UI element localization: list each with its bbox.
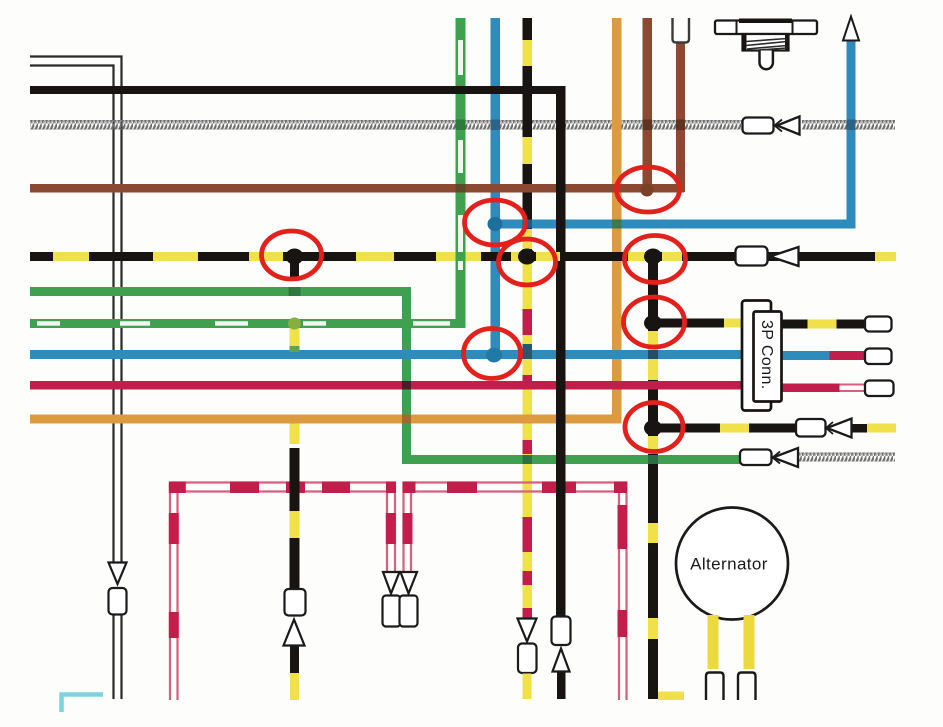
wire yellow alternator lead 2 bbox=[744, 615, 755, 669]
wire stub y428 junction to bullet connector bbox=[653, 424, 896, 433]
junction node at (653,428) bbox=[644, 420, 662, 436]
wire blue horizontal y355 (lower) bbox=[30, 350, 866, 360]
wire G/W green-white horizontal y324 bbox=[30, 319, 466, 328]
junction node at (653,323) bbox=[644, 315, 662, 331]
wire blue horizontal y224 + vertical x851 bbox=[495, 40, 856, 229]
wire gray shielded (hatched) horizontal y127 bbox=[30, 120, 895, 130]
crossing blob blue224 x orange616 bbox=[612, 220, 622, 229]
crossing blob yellow294 x blue355 bbox=[290, 346, 300, 352]
annotation circle 1 (294,255) bbox=[262, 231, 322, 279]
connector bullet rect + arrow on hatched y127 bbox=[743, 117, 800, 135]
junction node blue at (495,224) bbox=[488, 217, 503, 231]
wire R/W red-white loop U1 bbox=[169, 482, 396, 701]
connector bullet rect + arrow on y428 bbox=[796, 419, 852, 438]
terminal rect right y356 bbox=[865, 349, 892, 365]
connector rect + triangle up on wire x561 bbox=[552, 617, 571, 672]
wire yellow tail below x527 connector bbox=[523, 674, 532, 700]
annotation circle 8 (654,427) bbox=[625, 403, 683, 452]
connector triangle down + rect on white wire x117 bbox=[109, 563, 127, 615]
wire Y/R yellow-red vertical x527 upper (black/yellow) bbox=[523, 18, 533, 261]
terminal rect right y323 bbox=[865, 317, 892, 332]
annotation circle 5 (655,259) bbox=[625, 236, 686, 283]
annotation circle 6 (654,322) bbox=[624, 297, 685, 347]
connector chevron y428 bbox=[826, 422, 833, 434]
connector chevron y459 bbox=[773, 452, 781, 464]
wire brown vertical x680 from U terminal bbox=[676, 42, 685, 192]
alternator circle bbox=[676, 508, 788, 620]
wire gray shielded (hatched) right of green connector bbox=[798, 453, 895, 462]
terminal U (female) above brown x680 bbox=[673, 18, 690, 43]
wire blue vertical x495 (top to lower blue junction) bbox=[491, 18, 501, 359]
3P connector box bbox=[742, 301, 782, 411]
connector triangle down + rect on wire x527 bbox=[518, 619, 537, 674]
wire orange horizontal y419 + vertical x616 bbox=[30, 18, 622, 424]
wire black/yellow dashed horizontal y256 bbox=[30, 252, 896, 261]
wire brown horizontal y188 bbox=[30, 184, 684, 193]
connector chevron y127 bbox=[775, 120, 783, 132]
terminal male cap alternator lead 2 bbox=[738, 673, 756, 701]
connector triangle down + rect on wire x391 bbox=[383, 572, 401, 627]
crossing blob orange419 x green406 bbox=[402, 415, 411, 424]
wire Y/R yellow-red vertical x527 lower bbox=[523, 261, 533, 618]
junction node at (653,257) bbox=[644, 249, 662, 265]
crossing green460 over dashed y256 bbox=[456, 252, 466, 261]
wire y323 right of 3P conn to terminal bbox=[782, 320, 867, 329]
annotation circle 7 (648,189) bbox=[617, 167, 680, 212]
connector bullet rect + arrow on green y459 bbox=[740, 448, 798, 467]
crossing blob hatched x brown680 bbox=[676, 120, 685, 131]
junction node at (527,257) bbox=[518, 249, 536, 265]
crossing blob hatched x green460 bbox=[456, 120, 466, 131]
wire stub y323 junction to 3P conn bbox=[653, 319, 742, 328]
connector triangle down + rect on wire x408 bbox=[400, 572, 418, 627]
wire yellow alternator lead 1 bbox=[708, 615, 719, 669]
svg-text:Alternator: Alternator bbox=[690, 555, 768, 574]
crossing blob green459 x wire653 bbox=[648, 455, 658, 464]
arrow terminal blue top x851 bbox=[843, 17, 859, 41]
junction node T at (294,257) with stub bbox=[286, 249, 304, 279]
crossing blob green459 x wire527 bbox=[523, 455, 533, 464]
crossing blob brown188 x green460 bbox=[456, 184, 466, 193]
crossing blob hatched x blue851 bbox=[847, 120, 856, 131]
crossing blob blue224 x wire527 bbox=[523, 220, 533, 229]
crossing blob blue355 x wire653 bbox=[648, 350, 658, 359]
wire crimson horizontal y385 bbox=[30, 381, 865, 392]
svg-text:3P Conn.: 3P Conn. bbox=[758, 320, 775, 390]
wire black horizontal y90 + vertical x561 bbox=[30, 86, 566, 699]
wire yellow stub x294 green/white to blue bbox=[290, 328, 300, 352]
wire G/W green-white vertical x460 bbox=[456, 18, 466, 328]
wire brown vertical x647 bbox=[643, 18, 653, 192]
terminal male cap alternator lead 1 bbox=[706, 673, 724, 701]
connector rect + triangle up on wire x294 bbox=[284, 589, 306, 646]
connector bullet rect + arrow on dashed y256 bbox=[736, 247, 799, 267]
annotation circle 2 (492,353) bbox=[464, 329, 521, 379]
crossing blob blue355 x wire527 bbox=[523, 344, 533, 359]
annotation circle 3 (495,222) bbox=[465, 200, 526, 245]
junction node blue at (494,355) bbox=[486, 348, 502, 363]
wire B/Y vertical x294 below orange bbox=[290, 424, 300, 701]
wire W1 white wire outline (left, elbow down) bbox=[30, 57, 122, 700]
crossing blob stub294 x green291 bbox=[289, 287, 301, 296]
crossing blob crimson385 x green406 bbox=[402, 381, 411, 390]
wire green solid horizontal y291 + vertical x406 bbox=[30, 287, 411, 464]
bolt symbol top right bbox=[715, 19, 817, 70]
junction node brown at (647,188) bbox=[641, 184, 654, 197]
junction node yellow-green at (294,324) bbox=[288, 318, 301, 330]
annotation circle 4 (527,261) bbox=[499, 239, 556, 285]
wire green horizontal y459 (right segment) bbox=[402, 455, 740, 464]
wire B/Y black-yellow vertical x653 (junction chain) bbox=[648, 256, 684, 700]
crossing blob hatched x brown647 bbox=[643, 120, 653, 131]
crossing blob hatched x blue495 bbox=[491, 120, 501, 131]
cyan wire corner bottom left bbox=[62, 695, 104, 713]
wire R/W red-white loop U2 bbox=[403, 482, 628, 701]
terminal rect right y388 bbox=[865, 381, 894, 397]
